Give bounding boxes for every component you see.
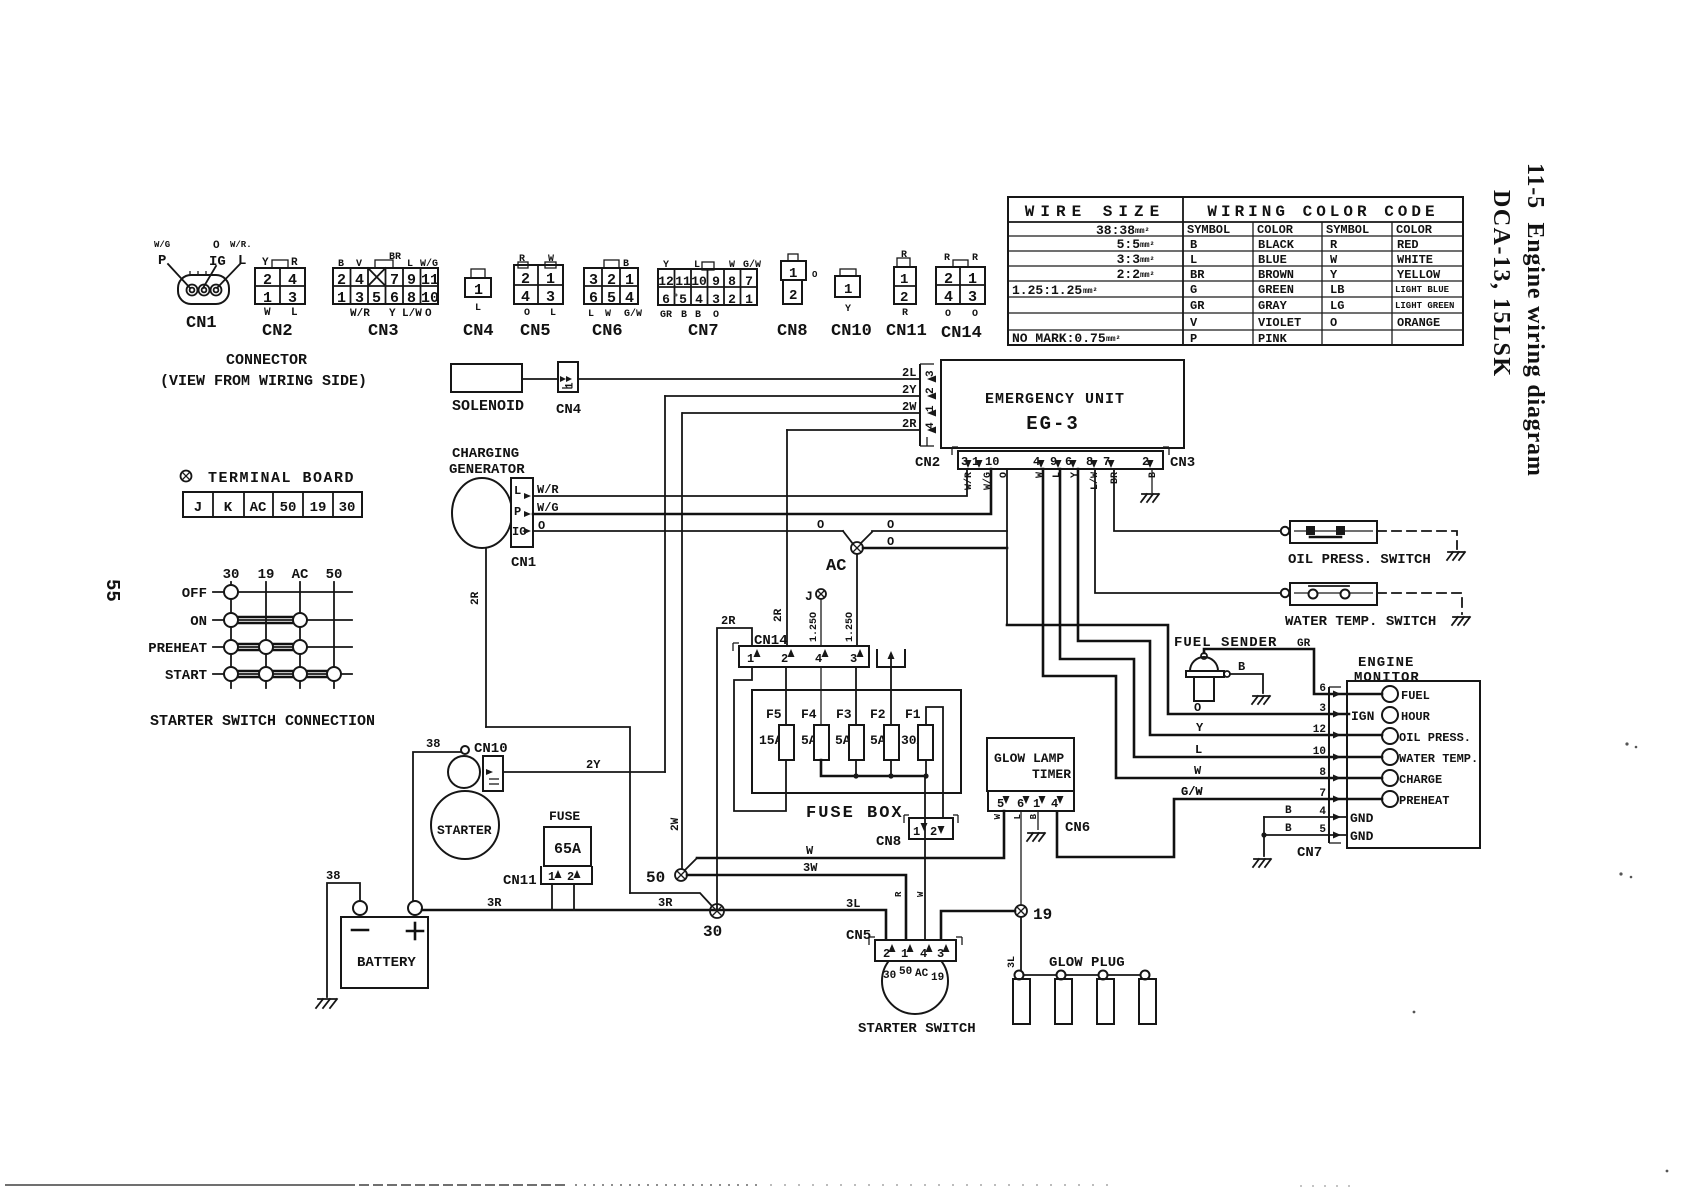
fuse F4 5A (801, 707, 829, 760)
OFF contact 30 (224, 585, 238, 599)
svg-text:Y: Y (389, 308, 396, 320)
svg-text:IG: IG (209, 254, 226, 270)
svg-text:K: K (224, 500, 233, 516)
svg-text:ENGINE: ENGINE (1358, 655, 1414, 671)
svg-text:WIRING COLOR CODE: WIRING COLOR CODE (1207, 203, 1438, 221)
svg-text:L/W: L/W (402, 308, 422, 320)
svg-text:2R: 2R (470, 591, 482, 605)
svg-text:mm²: mm² (1140, 256, 1154, 265)
svg-text:5: 5 (997, 797, 1004, 811)
svg-text:SYMBOL: SYMBOL (1187, 223, 1230, 237)
scan specks (675, 294, 1669, 1173)
svg-text:SOLENOID: SOLENOID (452, 398, 524, 415)
connector CN5 (schematic strip) (846, 928, 962, 961)
svg-text:WHITE: WHITE (1397, 253, 1433, 267)
svg-text:BATTERY: BATTERY (357, 955, 416, 971)
svg-text:3:3: 3:3 (1117, 252, 1141, 267)
svg-text:O: O (887, 535, 894, 549)
wire W/R generator to CN3 pin 3 (533, 469, 967, 496)
svg-text:L: L (1195, 743, 1202, 757)
svg-text:38: 38 (426, 737, 440, 751)
svg-text:B: B (1285, 823, 1292, 835)
svg-text:O: O (972, 309, 978, 320)
svg-text:O: O (887, 518, 894, 532)
svg-text:G/W: G/W (1181, 785, 1203, 799)
svg-text:F3: F3 (836, 707, 852, 722)
connector CN14 (schematic strip) (733, 633, 869, 667)
svg-text:B: B (1238, 660, 1245, 674)
starter solenoid circle (448, 756, 480, 788)
svg-text:CN7: CN7 (1297, 845, 1322, 861)
svg-text:V: V (1190, 316, 1198, 330)
wire 2W horizontal to EG-3 CN2 (683, 412, 920, 414)
connector CN8 (top row) (777, 254, 818, 341)
svg-text:W: W (1035, 472, 1046, 478)
svg-text:1: 1 (546, 271, 555, 288)
connector CN7 (top row) (658, 259, 761, 341)
node 19 (1015, 905, 1052, 924)
svg-text:FUSE: FUSE (549, 809, 580, 824)
svg-text:AC: AC (826, 557, 846, 576)
monitor pin arrows (1333, 691, 1341, 698)
svg-text:1: 1 (745, 292, 753, 307)
svg-text:2: 2 (521, 271, 530, 288)
wire F3 bottom to bus (855, 760, 857, 776)
svg-text:50: 50 (899, 966, 912, 978)
junction dot F3/bus (853, 773, 858, 778)
wire fuse output bus (821, 760, 926, 776)
junction dot F2/bus (888, 773, 893, 778)
svg-text:J: J (194, 500, 202, 516)
svg-text:IGN: IGN (1351, 709, 1374, 724)
svg-text:YELLOW: YELLOW (1397, 268, 1441, 282)
svg-text:(VIEW FROM WIRING SIDE): (VIEW FROM WIRING SIDE) (160, 373, 367, 390)
wire 2Y horizontal to EG-3 CN2 (665, 395, 920, 397)
svg-text:PREHEAT: PREHEAT (1399, 794, 1449, 808)
wire AC node to CN14 pin 3 (856, 554, 858, 646)
wire CN11 pin 2 to 3R bus (573, 884, 575, 910)
table frame (1008, 197, 1463, 345)
wire generator B+ run to 2Y bus (486, 727, 630, 893)
lamp FUEL (1382, 686, 1398, 702)
svg-text:R: R (972, 253, 978, 264)
svg-text:CHARGING: CHARGING (452, 446, 519, 462)
wire diagonal node 50 to W line (685, 858, 697, 870)
svg-text:7: 7 (390, 272, 399, 289)
START contacts 30-19-AC-50 (238, 670, 327, 673)
wire battery minus to ground (327, 883, 360, 997)
svg-text:2: 2 (944, 271, 953, 288)
svg-text:2R: 2R (721, 614, 736, 628)
svg-text:3W: 3W (803, 861, 818, 875)
connector CN10 (top row) (831, 269, 872, 341)
svg-text:L: L (475, 303, 481, 314)
svg-text:65A: 65A (554, 841, 581, 858)
wire O mid run from node AC (863, 547, 1007, 550)
svg-text:3: 3 (850, 652, 857, 666)
svg-text:2:2: 2:2 (1117, 267, 1141, 282)
ground (water temp switch) (1452, 617, 1470, 625)
svg-text:AC: AC (292, 567, 309, 583)
charging generator (449, 446, 536, 571)
wire CN6 pin 6 down to node 19 (1020, 811, 1022, 905)
svg-text:R: R (1330, 238, 1338, 252)
svg-text:CN2: CN2 (262, 322, 293, 341)
svg-text:WATER TEMP.: WATER TEMP. (1399, 752, 1478, 766)
svg-text:BLUE: BLUE (1258, 253, 1287, 267)
svg-text:4: 4 (625, 290, 634, 307)
svg-text:2W: 2W (902, 400, 917, 414)
wire solenoid to CN4 (522, 378, 558, 380)
fuse FUSE 65A (544, 809, 591, 866)
svg-text:1: 1 (900, 272, 908, 288)
svg-text:TERMINAL BOARD: TERMINAL BOARD (208, 470, 355, 487)
svg-text:7: 7 (745, 274, 753, 289)
wire dashed oil press switch to ground (1377, 531, 1457, 549)
svg-text:LIGHT BLUE: LIGHT BLUE (1395, 285, 1450, 295)
wire F5 output loop to CN14 pin 1 (734, 667, 786, 811)
svg-text:1: 1 (1033, 797, 1040, 811)
row lines (213, 591, 352, 593)
svg-text:HOUR: HOUR (1401, 710, 1431, 724)
svg-text:GREEN: GREEN (1258, 283, 1294, 297)
oil pressure switch (1281, 521, 1431, 568)
svg-text:30: 30 (883, 970, 896, 982)
svg-text:1: 1 (337, 290, 346, 307)
svg-text:B: B (1148, 472, 1159, 478)
svg-text:mm²: mm² (1140, 271, 1154, 280)
svg-text:CN11: CN11 (886, 322, 927, 341)
svg-text:Y: Y (1070, 472, 1081, 478)
svg-text:2: 2 (781, 652, 788, 666)
wire 3W node 50 to CN5 pin 1 (687, 875, 906, 940)
wire CN14 bracket pin to fuse F2 (890, 667, 892, 725)
table column divider wire size / color code (1182, 197, 1184, 345)
svg-text:2: 2 (930, 825, 937, 839)
svg-text:F2: F2 (870, 707, 886, 722)
wire Y chain CN3 pin 6 to monitor pin 12 (1078, 469, 1382, 735)
starter motor (431, 791, 499, 859)
wire dashed water temp switch to ground (1377, 593, 1462, 614)
fuse F2 5A (870, 707, 899, 760)
svg-text:BR: BR (389, 252, 401, 263)
svg-text:BR: BR (1110, 472, 1121, 484)
svg-text:9: 9 (407, 272, 416, 289)
svg-text:O: O (213, 240, 220, 252)
node J (805, 589, 826, 604)
terminal board table (183, 492, 362, 517)
svg-text:BROWN: BROWN (1258, 268, 1294, 282)
svg-text:L: L (238, 253, 246, 269)
svg-text:5:5: 5:5 (1117, 237, 1141, 252)
svg-text:PINK: PINK (1258, 332, 1288, 346)
connector CN11 (schematic strip) (503, 866, 592, 889)
svg-text:30: 30 (339, 500, 356, 516)
wire O diagonal out of node AC (861, 532, 872, 543)
wire B monitor pin 4 (1264, 816, 1347, 818)
svg-text:CN14: CN14 (941, 324, 982, 343)
svg-text:1: 1 (913, 825, 920, 839)
svg-text:1: 1 (901, 947, 908, 961)
fuel sender (1174, 635, 1311, 701)
node 50 (646, 869, 687, 887)
lamp CHARGE (1382, 770, 1398, 786)
ground (battery) (316, 999, 337, 1008)
svg-text:Y: Y (845, 304, 851, 315)
connector CN10 (schematic) (474, 741, 508, 791)
junction dot B wires (1261, 832, 1266, 837)
svg-text:O: O (1330, 316, 1337, 330)
svg-text:FUEL: FUEL (1401, 689, 1430, 703)
svg-text:O: O (1194, 701, 1201, 715)
connector CN6 (timer strip) (988, 791, 1090, 836)
svg-text:CN10: CN10 (831, 322, 872, 341)
svg-text:L: L (291, 307, 298, 319)
svg-text:GR: GR (1190, 299, 1205, 313)
svg-text:CN10: CN10 (474, 741, 508, 757)
starter B terminal circle (461, 746, 469, 754)
column lines (230, 582, 232, 688)
svg-text:8: 8 (407, 290, 416, 307)
connector CN3 (EG-3 bottom strip) (952, 447, 1195, 471)
wire bus down to CN5 pin 4 through CN8 pin 1 (924, 776, 926, 940)
svg-text:F4: F4 (801, 707, 817, 722)
svg-text:O: O (812, 270, 818, 280)
svg-text:B: B (1190, 238, 1197, 252)
svg-text:mm²: mm² (1106, 335, 1120, 344)
svg-text:CN6: CN6 (1065, 820, 1090, 836)
connector CN7 (monitor strip) (1297, 687, 1341, 861)
wire B join to ground (1263, 817, 1265, 856)
svg-text:FUSE BOX: FUSE BOX (806, 804, 904, 823)
starter switch (882, 948, 948, 1014)
svg-text:W/R: W/R (350, 308, 370, 320)
svg-text:W/R: W/R (963, 472, 975, 490)
wire G/W glow timer to monitor pin 7 (1057, 799, 1382, 857)
lamp PREHEAT (1382, 791, 1398, 807)
svg-text:WATER TEMP. SWITCH: WATER TEMP. SWITCH (1285, 614, 1436, 630)
svg-text:OFF: OFF (182, 586, 207, 602)
svg-text:F1: F1 (905, 707, 921, 722)
svg-text:OIL PRESS. SWITCH: OIL PRESS. SWITCH (1288, 552, 1431, 568)
svg-text:mm²: mm² (1140, 241, 1154, 250)
svg-text:12: 12 (1313, 724, 1326, 736)
svg-text:L: L (588, 309, 594, 320)
svg-text:R: R (519, 254, 525, 265)
svg-text:GENERATOR: GENERATOR (449, 462, 525, 478)
svg-text:50: 50 (326, 567, 343, 583)
svg-text:O: O (817, 518, 824, 532)
connector CN11 (top row) (886, 250, 927, 341)
svg-text:3: 3 (937, 947, 944, 961)
node AC (826, 542, 863, 576)
wire size row rules (1008, 235, 1183, 237)
svg-text:LG: LG (1330, 299, 1344, 313)
svg-text:1: 1 (968, 271, 977, 288)
svg-text:1: 1 (844, 282, 852, 298)
svg-text:4: 4 (815, 652, 822, 666)
wire W from node 50 to CN6 pin 5 (697, 811, 1004, 858)
svg-text:P: P (158, 253, 166, 269)
svg-text:OIL PRESS.: OIL PRESS. (1399, 731, 1471, 745)
svg-text:EMERGENCY UNIT: EMERGENCY UNIT (985, 391, 1125, 408)
svg-text:2L: 2L (902, 366, 916, 380)
svg-text:O: O (999, 472, 1010, 478)
svg-text:L: L (1190, 253, 1197, 267)
svg-text:O: O (713, 310, 719, 321)
svg-text:CHARGE: CHARGE (1399, 773, 1442, 787)
footer rule (5, 1185, 1360, 1186)
svg-text:W: W (1330, 253, 1338, 267)
fuse box FUSE BOX (752, 690, 961, 793)
svg-text:10: 10 (421, 290, 439, 307)
arrow into CN8 pin 2 (940, 818, 947, 826)
wire 2R generator drop (485, 548, 487, 727)
ground (CN3 pin 2) (1141, 494, 1159, 502)
svg-text:CN5: CN5 (846, 928, 871, 944)
svg-text:WIRE SIZE: WIRE SIZE (1025, 203, 1165, 221)
svg-text:1: 1 (789, 266, 797, 282)
svg-text:4: 4 (288, 272, 297, 289)
svg-text:L: L (550, 308, 556, 319)
connector CN4 (top row) (463, 269, 494, 341)
svg-text:1.25:1.25: 1.25:1.25 (1012, 283, 1082, 298)
ground (oil press switch) (1447, 552, 1465, 560)
glow plug 1 (1013, 971, 1030, 1025)
svg-text:4: 4 (695, 292, 703, 307)
wire J node to CN14 pin 4 (820, 599, 822, 646)
svg-text:50: 50 (280, 500, 297, 516)
svg-text:3: 3 (546, 289, 555, 306)
connector CN1 (154, 240, 252, 333)
svg-text:GR: GR (660, 310, 672, 321)
wire 2W vertical down to node 50 (681, 413, 683, 869)
svg-text:START: START (165, 668, 207, 684)
junction dot F1/bus (923, 773, 928, 778)
svg-text:P: P (1190, 332, 1197, 346)
wire BR chain CN3 pin 7 to oil press switch (1114, 469, 1281, 531)
svg-text:LIGHT GREEN: LIGHT GREEN (1395, 301, 1454, 311)
wire O run to monitor pin 3 (1007, 625, 1349, 714)
wire W/G generator to CN3 pin 1 (533, 469, 991, 514)
ground (CN6 pin 1) (1027, 833, 1045, 841)
ground (fuel sender) (1252, 696, 1270, 704)
glow plug 2 (1055, 971, 1072, 1025)
svg-text:Y: Y (1196, 721, 1204, 735)
wire B fuel sender to ground (1230, 674, 1263, 693)
glow plug 4 (1139, 971, 1156, 1025)
svg-text:W: W (993, 813, 1003, 819)
svg-text:B: B (1285, 805, 1292, 817)
wire O riser CN3 pin 10 (1006, 469, 1008, 625)
wire 3R bus battery plus to starter switch (422, 910, 886, 940)
wire 2R horizontal to EG-3 CN2 (787, 429, 920, 431)
svg-text:AC: AC (915, 968, 929, 980)
svg-text:11-5 Engine wiring diagram: 11-5 Engine wiring diagram (1522, 163, 1548, 477)
wire W chain CN3 pin 4 to monitor pin 8 (1043, 469, 1382, 778)
svg-text:30: 30 (703, 923, 722, 941)
svg-text:10: 10 (1313, 746, 1326, 758)
svg-text:9: 9 (712, 274, 720, 289)
wire O diagonal into node AC (843, 531, 853, 544)
connector CN4 (schematic) (556, 362, 581, 418)
svg-text:W: W (916, 891, 926, 897)
svg-text:CN6: CN6 (592, 322, 623, 341)
svg-text:1.25O: 1.25O (809, 612, 820, 642)
table header rule (1008, 221, 1463, 223)
svg-text:6: 6 (662, 292, 670, 307)
wire F1 top loop to CN8 pin 2 (926, 707, 943, 820)
lamp WATER TEMP (1382, 749, 1398, 765)
svg-text:G/W: G/W (624, 308, 642, 320)
svg-text:J: J (805, 589, 813, 604)
wire F2 bottom to bus (890, 760, 892, 776)
svg-text:1.25O: 1.25O (845, 612, 856, 642)
svg-text:2: 2 (883, 947, 890, 961)
wire 2R from node 30 riser (717, 628, 752, 911)
svg-text:mm²: mm² (1135, 227, 1149, 236)
svg-text:G: G (1190, 283, 1197, 297)
svg-text:CN5: CN5 (520, 322, 551, 341)
wire 2R vertical down to CN14 pin 2 (786, 430, 788, 646)
svg-text:5: 5 (679, 292, 687, 307)
svg-text:3: 3 (1319, 703, 1326, 715)
svg-text:W: W (1194, 764, 1202, 778)
svg-text:O: O (945, 309, 951, 320)
svg-text:mm²: mm² (1083, 287, 1097, 296)
svg-text:CN3: CN3 (1170, 455, 1195, 471)
node 30 (703, 904, 724, 941)
wire CN14 pin 4 to fuse F4 (820, 667, 822, 725)
svg-text:F5: F5 (766, 707, 782, 722)
fuse F1 30A (901, 707, 933, 760)
svg-text:CN1: CN1 (511, 555, 536, 571)
svg-text:B: B (695, 310, 701, 321)
lamp OIL PRESS (1382, 728, 1398, 744)
connector CN14 right bracket pin (877, 649, 905, 667)
wire O upper run to CN3 pin 10 riser (872, 530, 1007, 532)
svg-text:P: P (514, 505, 521, 519)
svg-text:19: 19 (258, 567, 275, 583)
glow plug 3 (1097, 971, 1114, 1025)
svg-text:L: L (514, 484, 521, 498)
terminal board symbol (181, 471, 192, 482)
svg-text:2Y: 2Y (586, 758, 601, 772)
svg-text:1: 1 (548, 870, 555, 884)
svg-text:CN7: CN7 (688, 322, 719, 341)
svg-text:CN8: CN8 (777, 322, 808, 341)
svg-text:W/R.: W/R. (230, 240, 252, 250)
svg-text:STARTER SWITCH: STARTER SWITCH (858, 1021, 976, 1037)
svg-text:CN2: CN2 (915, 455, 940, 471)
svg-text:2: 2 (900, 290, 908, 306)
svg-text:ON: ON (190, 614, 207, 630)
svg-text:2: 2 (567, 870, 574, 884)
wire B to ground (CN3 pin 2) (1151, 469, 1153, 493)
svg-text:1: 1 (474, 282, 483, 299)
svg-text:W/R: W/R (537, 483, 559, 497)
svg-text:O: O (524, 308, 530, 319)
connector CN14 (top row) (936, 253, 985, 343)
svg-text:CN14: CN14 (754, 633, 788, 649)
svg-text:R: R (894, 891, 904, 897)
svg-text:2: 2 (728, 292, 736, 307)
wire 3L CN5 pin 3 to node 19 (941, 911, 1015, 940)
svg-text:CN11: CN11 (503, 873, 537, 889)
svg-text:2: 2 (607, 272, 616, 289)
svg-text:CN8: CN8 (876, 834, 901, 850)
svg-text:4: 4 (944, 289, 953, 306)
